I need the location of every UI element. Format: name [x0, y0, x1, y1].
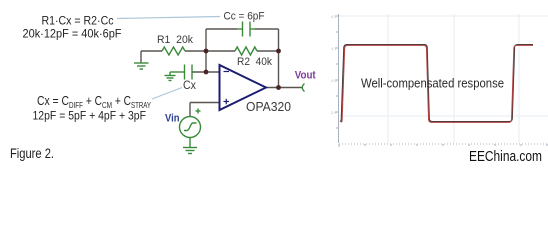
svg-text:R1·Cx = R2·Cc: R1·Cx = R2·Cc [42, 14, 114, 28]
svg-text:3.9: 3.9 [331, 110, 337, 115]
svg-text:Cc = 6pF: Cc = 6pF [224, 10, 265, 22]
svg-text:Vout: Vout [295, 70, 316, 82]
svg-text:Vin: Vin [165, 113, 180, 125]
svg-text:OPA320: OPA320 [246, 100, 291, 114]
svg-text:12pF = 5pF + 4pF + 3pF: 12pF = 5pF + 4pF + 3pF [33, 109, 147, 123]
svg-text:Cx = C: Cx = C [37, 94, 69, 108]
svg-text:20k·12pF = 40k·6pF: 20k·12pF = 40k·6pF [23, 27, 122, 41]
svg-text:Figure 2.: Figure 2. [10, 146, 54, 161]
svg-text:Well-compensated response: Well-compensated response [361, 75, 504, 90]
svg-text:+ C: + C [112, 94, 131, 108]
svg-text:EEChina.com: EEChina.com [469, 148, 542, 165]
svg-text:4.0: 4.0 [331, 78, 337, 83]
svg-text:R1 20k: R1 20k [157, 34, 193, 46]
svg-text:+ C: + C [83, 94, 102, 108]
svg-text:4.2: 4.2 [331, 14, 337, 19]
svg-text:Cx: Cx [183, 80, 196, 92]
svg-text:4.1: 4.1 [331, 46, 337, 51]
svg-text:R2 40k: R2 40k [237, 56, 272, 68]
